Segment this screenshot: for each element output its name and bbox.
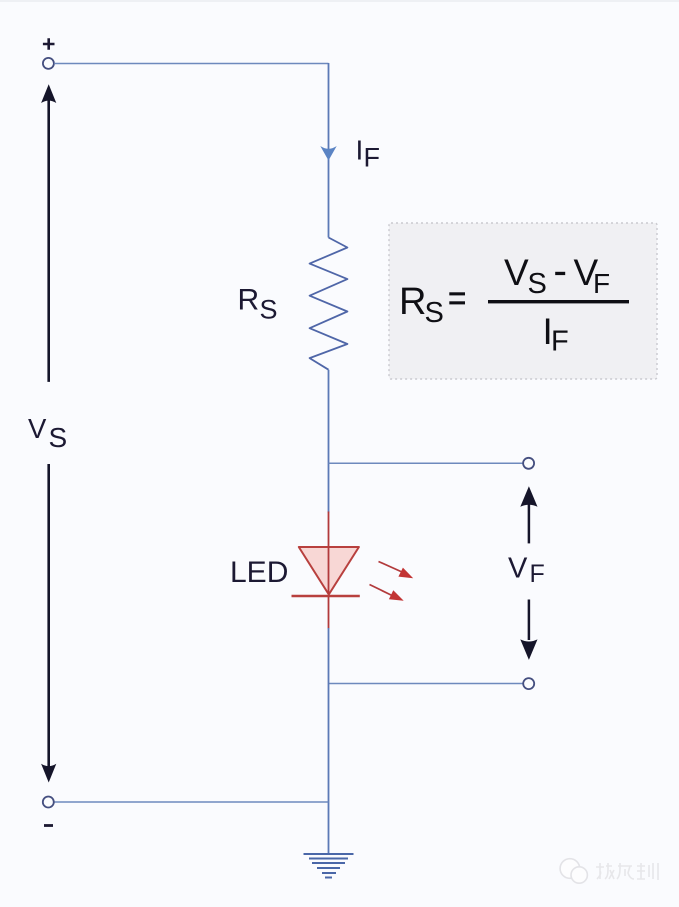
svg-text:LED: LED (230, 556, 288, 589)
LED triangle (299, 547, 359, 595)
svg-text:S: S (49, 422, 68, 453)
svg-text:V: V (508, 552, 528, 584)
svg-text:S: S (425, 297, 444, 329)
svg-text:R: R (238, 284, 260, 317)
svg-text:R: R (399, 281, 426, 323)
svg-text:V: V (28, 413, 47, 444)
svg-text:V: V (504, 252, 529, 293)
fraction bar (488, 300, 629, 303)
VS arrow down head (41, 764, 56, 783)
watermark logo text 技成培训 (simplified strokes) (596, 863, 658, 880)
VS arrow up head (41, 84, 56, 103)
label VS (28, 413, 67, 453)
node A wire to VF+ terminal (329, 462, 524, 464)
wire trunk upper (328, 63, 330, 238)
wire trunk mid (resistor to LED) (328, 370, 330, 513)
svg-text:F: F (530, 560, 545, 588)
light arrow 2 (370, 585, 404, 601)
wire trunk lower (LED to ground) (328, 628, 330, 853)
wire top horizontal (54, 63, 328, 65)
svg-text:S: S (260, 295, 278, 325)
svg-text:F: F (364, 143, 381, 173)
current arrow IF (320, 146, 336, 161)
node B wire to VF- terminal (329, 683, 524, 685)
VF up arrow (520, 486, 537, 543)
plus terminal label (43, 38, 55, 50)
svg-text:S: S (528, 268, 547, 300)
light arrow 1 (379, 562, 414, 579)
svg-text:F: F (551, 326, 569, 358)
watermark logo icon (560, 859, 587, 884)
LED cathode bar (292, 595, 360, 597)
label IF (356, 135, 381, 173)
ground (304, 854, 354, 878)
LED cathode lead (red) (328, 597, 330, 629)
terminal node VF+ (523, 458, 534, 469)
resistor RS (310, 238, 348, 370)
VS arrow shaft lower (47, 464, 50, 768)
formula RS = (VS - VF)/IF (399, 252, 610, 329)
VS arrow shaft upper (47, 99, 50, 382)
LED anode lead (red) (328, 512, 330, 595)
minus terminal label (44, 824, 53, 827)
terminal node - (bottom left) (43, 797, 54, 808)
equals sign (449, 292, 465, 295)
VF down arrow (520, 600, 537, 660)
label RS (resistor) (238, 284, 278, 325)
label VF (508, 552, 545, 588)
terminal node VF- (523, 678, 534, 689)
terminal node + (top left) (43, 58, 54, 69)
svg-text:F: F (593, 268, 610, 299)
formula box (389, 223, 657, 379)
svg-text:I: I (356, 135, 364, 166)
bottom wire horizontal (54, 801, 329, 803)
